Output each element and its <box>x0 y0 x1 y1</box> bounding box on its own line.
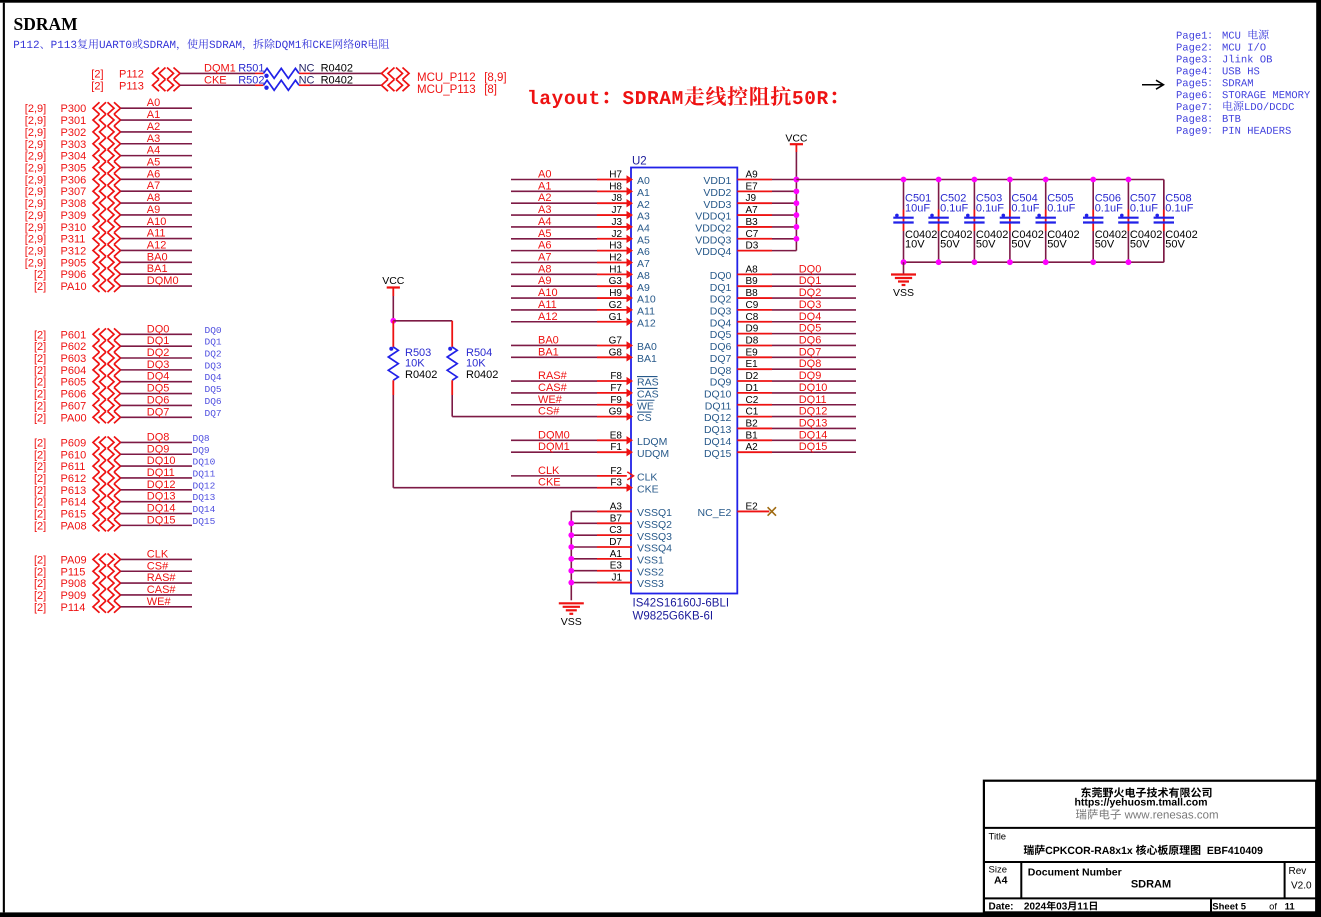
svg-text:A9: A9 <box>147 204 160 216</box>
svg-text:A8: A8 <box>746 264 759 275</box>
svg-text:R502: R502 <box>238 74 264 86</box>
svg-text:A2: A2 <box>147 121 160 133</box>
svg-text:A9: A9 <box>746 170 759 181</box>
svg-text:DQ14: DQ14 <box>799 429 828 441</box>
svg-text:NC: NC <box>299 62 315 74</box>
svg-text:P905: P905 <box>61 257 87 269</box>
svg-text:[2]: [2] <box>34 389 46 401</box>
svg-text:C9: C9 <box>746 300 759 311</box>
svg-text:RAS#: RAS# <box>538 370 568 382</box>
svg-text:P114: P114 <box>61 602 86 614</box>
svg-text:[2]: [2] <box>34 329 46 341</box>
svg-text:DQ10: DQ10 <box>193 457 216 468</box>
svg-text:P308: P308 <box>61 198 87 210</box>
svg-text:DQ0: DQ0 <box>710 270 732 282</box>
svg-text:P908: P908 <box>61 578 87 590</box>
svg-text:DQ12: DQ12 <box>147 479 176 491</box>
svg-text:[2,9]: [2,9] <box>25 127 46 139</box>
svg-text:11: 11 <box>1285 902 1296 913</box>
svg-text:E3: E3 <box>610 561 623 572</box>
svg-text:CAS: CAS <box>637 388 659 400</box>
svg-text:of: of <box>1269 902 1277 913</box>
svg-text:P606: P606 <box>61 389 87 401</box>
svg-text:WE: WE <box>637 400 654 412</box>
svg-text:A7: A7 <box>637 258 650 270</box>
svg-text:DQ14: DQ14 <box>704 436 732 448</box>
svg-text:DQ11: DQ11 <box>147 467 175 479</box>
svg-text:G8: G8 <box>609 347 623 358</box>
svg-text:VDDQ4: VDDQ4 <box>695 246 731 258</box>
svg-text:DQ9: DQ9 <box>193 445 210 456</box>
svg-text:50V: 50V <box>1047 239 1067 251</box>
svg-text:CS: CS <box>637 412 652 424</box>
svg-text:P304: P304 <box>61 151 87 163</box>
svg-text:DQ11: DQ11 <box>193 468 216 479</box>
svg-text:DQ12: DQ12 <box>799 406 828 418</box>
svg-text:DQ3: DQ3 <box>799 299 822 311</box>
svg-text:A11: A11 <box>637 306 655 318</box>
svg-text:A9: A9 <box>538 275 551 287</box>
svg-text:F9: F9 <box>610 395 622 406</box>
svg-text:P611: P611 <box>61 461 86 473</box>
svg-text:A0: A0 <box>147 97 160 109</box>
svg-text:C7: C7 <box>746 229 759 240</box>
svg-text:P605: P605 <box>61 377 87 389</box>
svg-text:CKE: CKE <box>204 74 227 86</box>
svg-text:[2,9]: [2,9] <box>25 234 46 246</box>
svg-text:VSS: VSS <box>561 616 582 628</box>
svg-text:Date:: Date: <box>989 902 1014 913</box>
svg-text:A4: A4 <box>538 216 551 228</box>
svg-text:A3: A3 <box>538 204 551 216</box>
svg-text:W9825G6KB-6I: W9825G6KB-6I <box>633 610 714 622</box>
svg-text:DQ11: DQ11 <box>799 394 827 406</box>
svg-text:PA10: PA10 <box>61 281 87 293</box>
svg-text:[2,9]: [2,9] <box>25 139 46 151</box>
svg-text:[2]: [2] <box>91 80 103 92</box>
svg-text:P610: P610 <box>61 449 87 461</box>
svg-text:P602: P602 <box>61 341 87 353</box>
svg-text:[2]: [2] <box>34 412 46 424</box>
svg-text:A6: A6 <box>538 240 551 252</box>
svg-text:Title: Title <box>989 832 1007 843</box>
svg-text:A2: A2 <box>637 199 650 211</box>
svg-text:B3: B3 <box>746 217 759 228</box>
svg-text:[2,9]: [2,9] <box>25 174 46 186</box>
svg-text:[2]: [2] <box>34 461 46 473</box>
svg-text:VDD1: VDD1 <box>703 175 731 187</box>
svg-text:B7: B7 <box>610 513 623 524</box>
svg-text:DQM0: DQM0 <box>538 429 570 441</box>
svg-text:A3: A3 <box>637 211 650 223</box>
svg-text:F7: F7 <box>610 383 622 394</box>
svg-text:[2]: [2] <box>34 473 46 485</box>
svg-text:10K: 10K <box>405 358 425 370</box>
svg-text:[2,9]: [2,9] <box>25 115 46 127</box>
svg-text:VSSQ3: VSSQ3 <box>637 531 672 543</box>
svg-text:[2]: [2] <box>34 497 46 509</box>
svg-text:DQ13: DQ13 <box>147 491 176 503</box>
svg-text:G9: G9 <box>609 407 623 418</box>
svg-text:DQ4: DQ4 <box>799 311 822 323</box>
svg-text:[8,9]: [8,9] <box>484 72 506 84</box>
svg-text:DQ15: DQ15 <box>193 516 216 527</box>
svg-text:[2,9]: [2,9] <box>25 186 46 198</box>
svg-text:A1: A1 <box>147 109 160 121</box>
svg-text:H3: H3 <box>609 241 622 252</box>
svg-text:A9: A9 <box>637 282 650 294</box>
svg-text:C2: C2 <box>746 395 759 406</box>
svg-text:DQ3: DQ3 <box>710 306 732 318</box>
svg-text:A0: A0 <box>637 175 650 187</box>
svg-text:0.1uF: 0.1uF <box>1095 202 1123 214</box>
svg-text:A11: A11 <box>147 228 166 240</box>
svg-text:DQ0: DQ0 <box>205 325 222 336</box>
svg-text:[2,9]: [2,9] <box>25 198 46 210</box>
svg-text:P306: P306 <box>61 174 87 186</box>
svg-text:A12: A12 <box>538 311 558 323</box>
svg-text:DQ0: DQ0 <box>799 263 822 275</box>
svg-text:RAS: RAS <box>637 377 659 389</box>
svg-text:VSS2: VSS2 <box>637 566 664 578</box>
svg-text:A6: A6 <box>147 168 160 180</box>
svg-text:B2: B2 <box>746 418 759 429</box>
svg-text:U2: U2 <box>632 156 647 168</box>
svg-text:DQ7: DQ7 <box>799 346 822 358</box>
svg-text:DQM1: DQM1 <box>204 62 236 74</box>
svg-text:PA09: PA09 <box>61 554 87 566</box>
svg-text:D9: D9 <box>746 324 759 335</box>
svg-text:V2.0: V2.0 <box>1291 881 1312 892</box>
svg-text:R0402: R0402 <box>321 62 353 74</box>
svg-text:DQ10: DQ10 <box>704 388 732 400</box>
svg-text:[2]: [2] <box>34 377 46 389</box>
svg-text:[2]: [2] <box>34 590 46 602</box>
svg-text:BA1: BA1 <box>538 346 559 358</box>
svg-text:D8: D8 <box>746 335 759 346</box>
svg-text:P302: P302 <box>61 127 87 139</box>
svg-text:DQ9: DQ9 <box>799 370 822 382</box>
svg-text:CAS#: CAS# <box>147 584 177 596</box>
svg-text:DQ14: DQ14 <box>193 504 216 515</box>
svg-text:[2]: [2] <box>34 520 46 532</box>
svg-text:A2: A2 <box>538 192 551 204</box>
svg-text:[2,9]: [2,9] <box>25 103 46 115</box>
svg-text:[2,9]: [2,9] <box>25 245 46 257</box>
svg-text:B1: B1 <box>746 430 759 441</box>
svg-text:F3: F3 <box>610 478 622 489</box>
svg-text:F1: F1 <box>610 442 622 453</box>
svg-text:[2]: [2] <box>34 341 46 353</box>
svg-text:[8]: [8] <box>484 84 497 96</box>
svg-text:G7: G7 <box>609 335 623 346</box>
svg-text:NC: NC <box>299 74 315 86</box>
svg-text:A11: A11 <box>538 299 557 311</box>
svg-text:CLK: CLK <box>538 465 560 477</box>
svg-text:VDD2: VDD2 <box>703 187 731 199</box>
svg-text:VDD3: VDD3 <box>703 199 731 211</box>
svg-text:H9: H9 <box>609 288 622 299</box>
svg-text:A1: A1 <box>610 549 623 560</box>
svg-text:P309: P309 <box>61 210 87 222</box>
svg-text:[2,9]: [2,9] <box>25 162 46 174</box>
svg-text:VDDQ1: VDDQ1 <box>695 211 731 223</box>
svg-text:D2: D2 <box>746 371 759 382</box>
svg-text:P113: P113 <box>119 80 144 92</box>
svg-text:DQ8: DQ8 <box>193 433 210 444</box>
svg-text:[2,9]: [2,9] <box>25 257 46 269</box>
svg-text:B9: B9 <box>746 276 759 287</box>
svg-text:A1: A1 <box>637 187 650 199</box>
svg-text:Document Number: Document Number <box>1028 867 1122 879</box>
svg-text:WE#: WE# <box>147 596 172 608</box>
svg-text:R0402: R0402 <box>405 369 437 381</box>
svg-text:P300: P300 <box>61 103 87 115</box>
svg-text:CKE: CKE <box>637 483 659 495</box>
svg-text:SDRAM: SDRAM <box>14 14 79 34</box>
svg-text:VCC: VCC <box>785 132 808 144</box>
svg-text:H8: H8 <box>609 181 622 192</box>
svg-text:P603: P603 <box>61 353 87 365</box>
svg-text:BA0: BA0 <box>538 334 559 346</box>
svg-text:DQ8: DQ8 <box>710 365 732 377</box>
svg-text:J8: J8 <box>611 193 622 204</box>
svg-text:[2]: [2] <box>34 509 46 521</box>
svg-text:DQ4: DQ4 <box>710 317 732 329</box>
svg-text:MCU_P112: MCU_P112 <box>417 72 476 84</box>
svg-text:D7: D7 <box>609 537 622 548</box>
svg-text:DQ5: DQ5 <box>799 323 822 335</box>
svg-text:[2]: [2] <box>34 449 46 461</box>
svg-text:D1: D1 <box>746 383 759 394</box>
svg-text:VSSQ4: VSSQ4 <box>637 543 672 555</box>
svg-text:F2: F2 <box>610 466 622 477</box>
svg-text:DQ2: DQ2 <box>205 349 222 360</box>
svg-text:DQ3: DQ3 <box>205 360 222 371</box>
svg-text:LDQM: LDQM <box>637 436 667 448</box>
svg-text:H2: H2 <box>609 252 622 263</box>
svg-text:A12: A12 <box>637 317 656 329</box>
svg-text:DQ6: DQ6 <box>799 334 822 346</box>
svg-text:R0402: R0402 <box>466 369 498 381</box>
svg-text:DQM1: DQM1 <box>538 441 570 453</box>
svg-text:F8: F8 <box>610 371 622 382</box>
svg-text:10K: 10K <box>466 358 486 370</box>
svg-text:DQ7: DQ7 <box>147 406 170 418</box>
svg-text:VSS3: VSS3 <box>637 578 664 590</box>
svg-text:A3: A3 <box>610 501 623 512</box>
svg-text:RAS#: RAS# <box>147 572 177 584</box>
svg-text:PA00: PA00 <box>61 412 87 424</box>
svg-text:P301: P301 <box>61 115 87 127</box>
svg-text:P906: P906 <box>61 269 87 281</box>
svg-text:E9: E9 <box>746 347 759 358</box>
svg-text:DQ10: DQ10 <box>799 382 828 394</box>
svg-text:P303: P303 <box>61 139 87 151</box>
svg-text:[2]: [2] <box>34 269 46 281</box>
svg-text:C3: C3 <box>609 525 622 536</box>
svg-text:VSSQ1: VSSQ1 <box>637 507 672 519</box>
svg-text:[2]: [2] <box>34 365 46 377</box>
svg-text:VCC: VCC <box>382 275 405 287</box>
svg-text:A0: A0 <box>538 169 551 181</box>
svg-text:0.1uF: 0.1uF <box>940 202 968 214</box>
svg-text:R501: R501 <box>238 62 264 74</box>
svg-text:A10: A10 <box>637 294 656 306</box>
svg-text:0.1uF: 0.1uF <box>1011 202 1039 214</box>
svg-text:DQM0: DQM0 <box>147 275 179 287</box>
svg-text:DQ1: DQ1 <box>147 335 170 347</box>
svg-text:J9: J9 <box>746 193 757 204</box>
svg-text:H1: H1 <box>609 264 622 275</box>
svg-text:50V: 50V <box>1130 239 1150 251</box>
svg-text:C1: C1 <box>746 407 759 418</box>
svg-text:P311: P311 <box>61 234 86 246</box>
svg-text:VDDQ2: VDDQ2 <box>695 223 731 235</box>
svg-text:[2]: [2] <box>34 485 46 497</box>
svg-text:P112: P112 <box>119 68 144 80</box>
svg-text:J1: J1 <box>611 573 622 584</box>
svg-text:P909: P909 <box>61 590 87 602</box>
svg-text:DQ6: DQ6 <box>205 396 222 407</box>
svg-text:DQ13: DQ13 <box>704 424 732 436</box>
svg-text:P115: P115 <box>61 566 86 578</box>
svg-text:DQ14: DQ14 <box>147 503 176 515</box>
svg-text:DQ6: DQ6 <box>710 341 732 353</box>
svg-text:DQ3: DQ3 <box>147 359 170 371</box>
svg-text:P307: P307 <box>61 186 87 198</box>
svg-text:DQ12: DQ12 <box>193 480 216 491</box>
svg-text:DQ13: DQ13 <box>799 417 828 429</box>
svg-text:DQ8: DQ8 <box>799 358 822 370</box>
svg-text:A5: A5 <box>538 228 551 240</box>
svg-text:[2]: [2] <box>34 437 46 449</box>
svg-text:DQ11: DQ11 <box>705 400 732 412</box>
svg-text:A7: A7 <box>538 251 551 263</box>
svg-text:50V: 50V <box>976 239 996 251</box>
svg-text:H7: H7 <box>609 170 622 181</box>
svg-text:[2,9]: [2,9] <box>25 222 46 234</box>
svg-text:E1: E1 <box>746 359 759 370</box>
svg-text:P614: P614 <box>61 497 87 509</box>
svg-text:[2]: [2] <box>34 602 46 614</box>
svg-text:D3: D3 <box>746 241 759 252</box>
svg-text:P609: P609 <box>61 437 87 449</box>
svg-text:DQ8: DQ8 <box>147 431 170 443</box>
svg-text:[2]: [2] <box>34 578 46 590</box>
svg-text:P612: P612 <box>61 473 87 485</box>
svg-text:50V: 50V <box>940 239 960 251</box>
svg-text:A3: A3 <box>147 133 160 145</box>
svg-text:CS#: CS# <box>147 560 169 572</box>
svg-text:VSS1: VSS1 <box>637 554 664 566</box>
svg-text:BA0: BA0 <box>147 251 168 263</box>
svg-text:E7: E7 <box>746 181 759 192</box>
svg-text:J3: J3 <box>611 217 622 228</box>
svg-text:DQ2: DQ2 <box>710 294 732 306</box>
svg-text:MCU_P113: MCU_P113 <box>417 84 476 96</box>
svg-text:DQ13: DQ13 <box>193 492 216 503</box>
svg-text:Sheet: Sheet <box>1212 902 1239 913</box>
svg-text:P305: P305 <box>61 162 87 174</box>
svg-text:[2]: [2] <box>34 554 46 566</box>
svg-text:DQ9: DQ9 <box>147 443 170 455</box>
svg-text:0.1uF: 0.1uF <box>1165 202 1193 214</box>
svg-text:A5: A5 <box>637 234 650 246</box>
svg-text:DQ0: DQ0 <box>147 323 170 335</box>
svg-text:E8: E8 <box>610 430 623 441</box>
svg-text:[2]: [2] <box>34 400 46 412</box>
svg-text:50V: 50V <box>1165 239 1185 251</box>
svg-text:DQ1: DQ1 <box>799 275 822 287</box>
svg-text:A8: A8 <box>147 192 160 204</box>
svg-text:A7: A7 <box>147 180 160 192</box>
svg-text:G3: G3 <box>609 276 623 287</box>
svg-text:50V: 50V <box>1095 239 1115 251</box>
svg-text:BA1: BA1 <box>637 353 657 365</box>
svg-text:DQ1: DQ1 <box>205 337 222 348</box>
svg-text:DQ5: DQ5 <box>205 384 222 395</box>
svg-text:DQ9: DQ9 <box>710 377 732 389</box>
svg-text:B8: B8 <box>746 288 759 299</box>
svg-text:J7: J7 <box>611 205 622 216</box>
svg-text:A6: A6 <box>637 246 650 258</box>
svg-text:DQ4: DQ4 <box>205 372 222 383</box>
svg-text:P615: P615 <box>61 509 87 521</box>
svg-text:VSSQ2: VSSQ2 <box>637 519 672 531</box>
svg-text:DQ2: DQ2 <box>799 287 822 299</box>
svg-text:A1: A1 <box>538 180 551 192</box>
svg-text:[2,9]: [2,9] <box>25 210 46 222</box>
svg-text:A4: A4 <box>994 875 1008 887</box>
svg-text:0.1uF: 0.1uF <box>1047 202 1075 214</box>
svg-text:A5: A5 <box>147 156 160 168</box>
svg-text:WE#: WE# <box>538 394 563 406</box>
svg-text:P604: P604 <box>61 365 87 377</box>
svg-text:DQ15: DQ15 <box>799 441 828 453</box>
svg-text:DQ7: DQ7 <box>205 408 222 419</box>
svg-text:[2]: [2] <box>34 281 46 293</box>
svg-text:P312: P312 <box>61 245 87 257</box>
svg-text:DQ5: DQ5 <box>710 329 732 341</box>
svg-text:NC_E2: NC_E2 <box>698 507 732 519</box>
svg-text:P601: P601 <box>61 329 87 341</box>
svg-text:P607: P607 <box>61 400 87 412</box>
svg-text:CS#: CS# <box>538 406 560 418</box>
svg-text:BA1: BA1 <box>147 263 168 275</box>
svg-text:DQ15: DQ15 <box>704 448 732 460</box>
svg-text:5: 5 <box>1241 902 1247 913</box>
svg-text:A7: A7 <box>746 205 759 216</box>
svg-text:A4: A4 <box>147 145 160 157</box>
svg-text:IS42S16160J-6BLI: IS42S16160J-6BLI <box>633 598 730 610</box>
svg-text:CLK: CLK <box>637 471 657 483</box>
svg-text:P310: P310 <box>61 222 87 234</box>
svg-text:50V: 50V <box>1011 239 1031 251</box>
svg-text:E2: E2 <box>746 501 759 512</box>
svg-text:10uF: 10uF <box>905 202 930 214</box>
svg-text:A10: A10 <box>147 216 167 228</box>
svg-text:CLK: CLK <box>147 548 169 560</box>
svg-text:A12: A12 <box>147 239 167 251</box>
svg-text:Rev: Rev <box>1289 866 1307 877</box>
svg-text:[2]: [2] <box>34 566 46 578</box>
svg-text:J2: J2 <box>611 229 622 240</box>
svg-text:0.1uF: 0.1uF <box>1130 202 1158 214</box>
svg-text:DQ1: DQ1 <box>710 282 732 294</box>
svg-text:DQ7: DQ7 <box>710 353 732 365</box>
svg-text:[2]: [2] <box>34 353 46 365</box>
